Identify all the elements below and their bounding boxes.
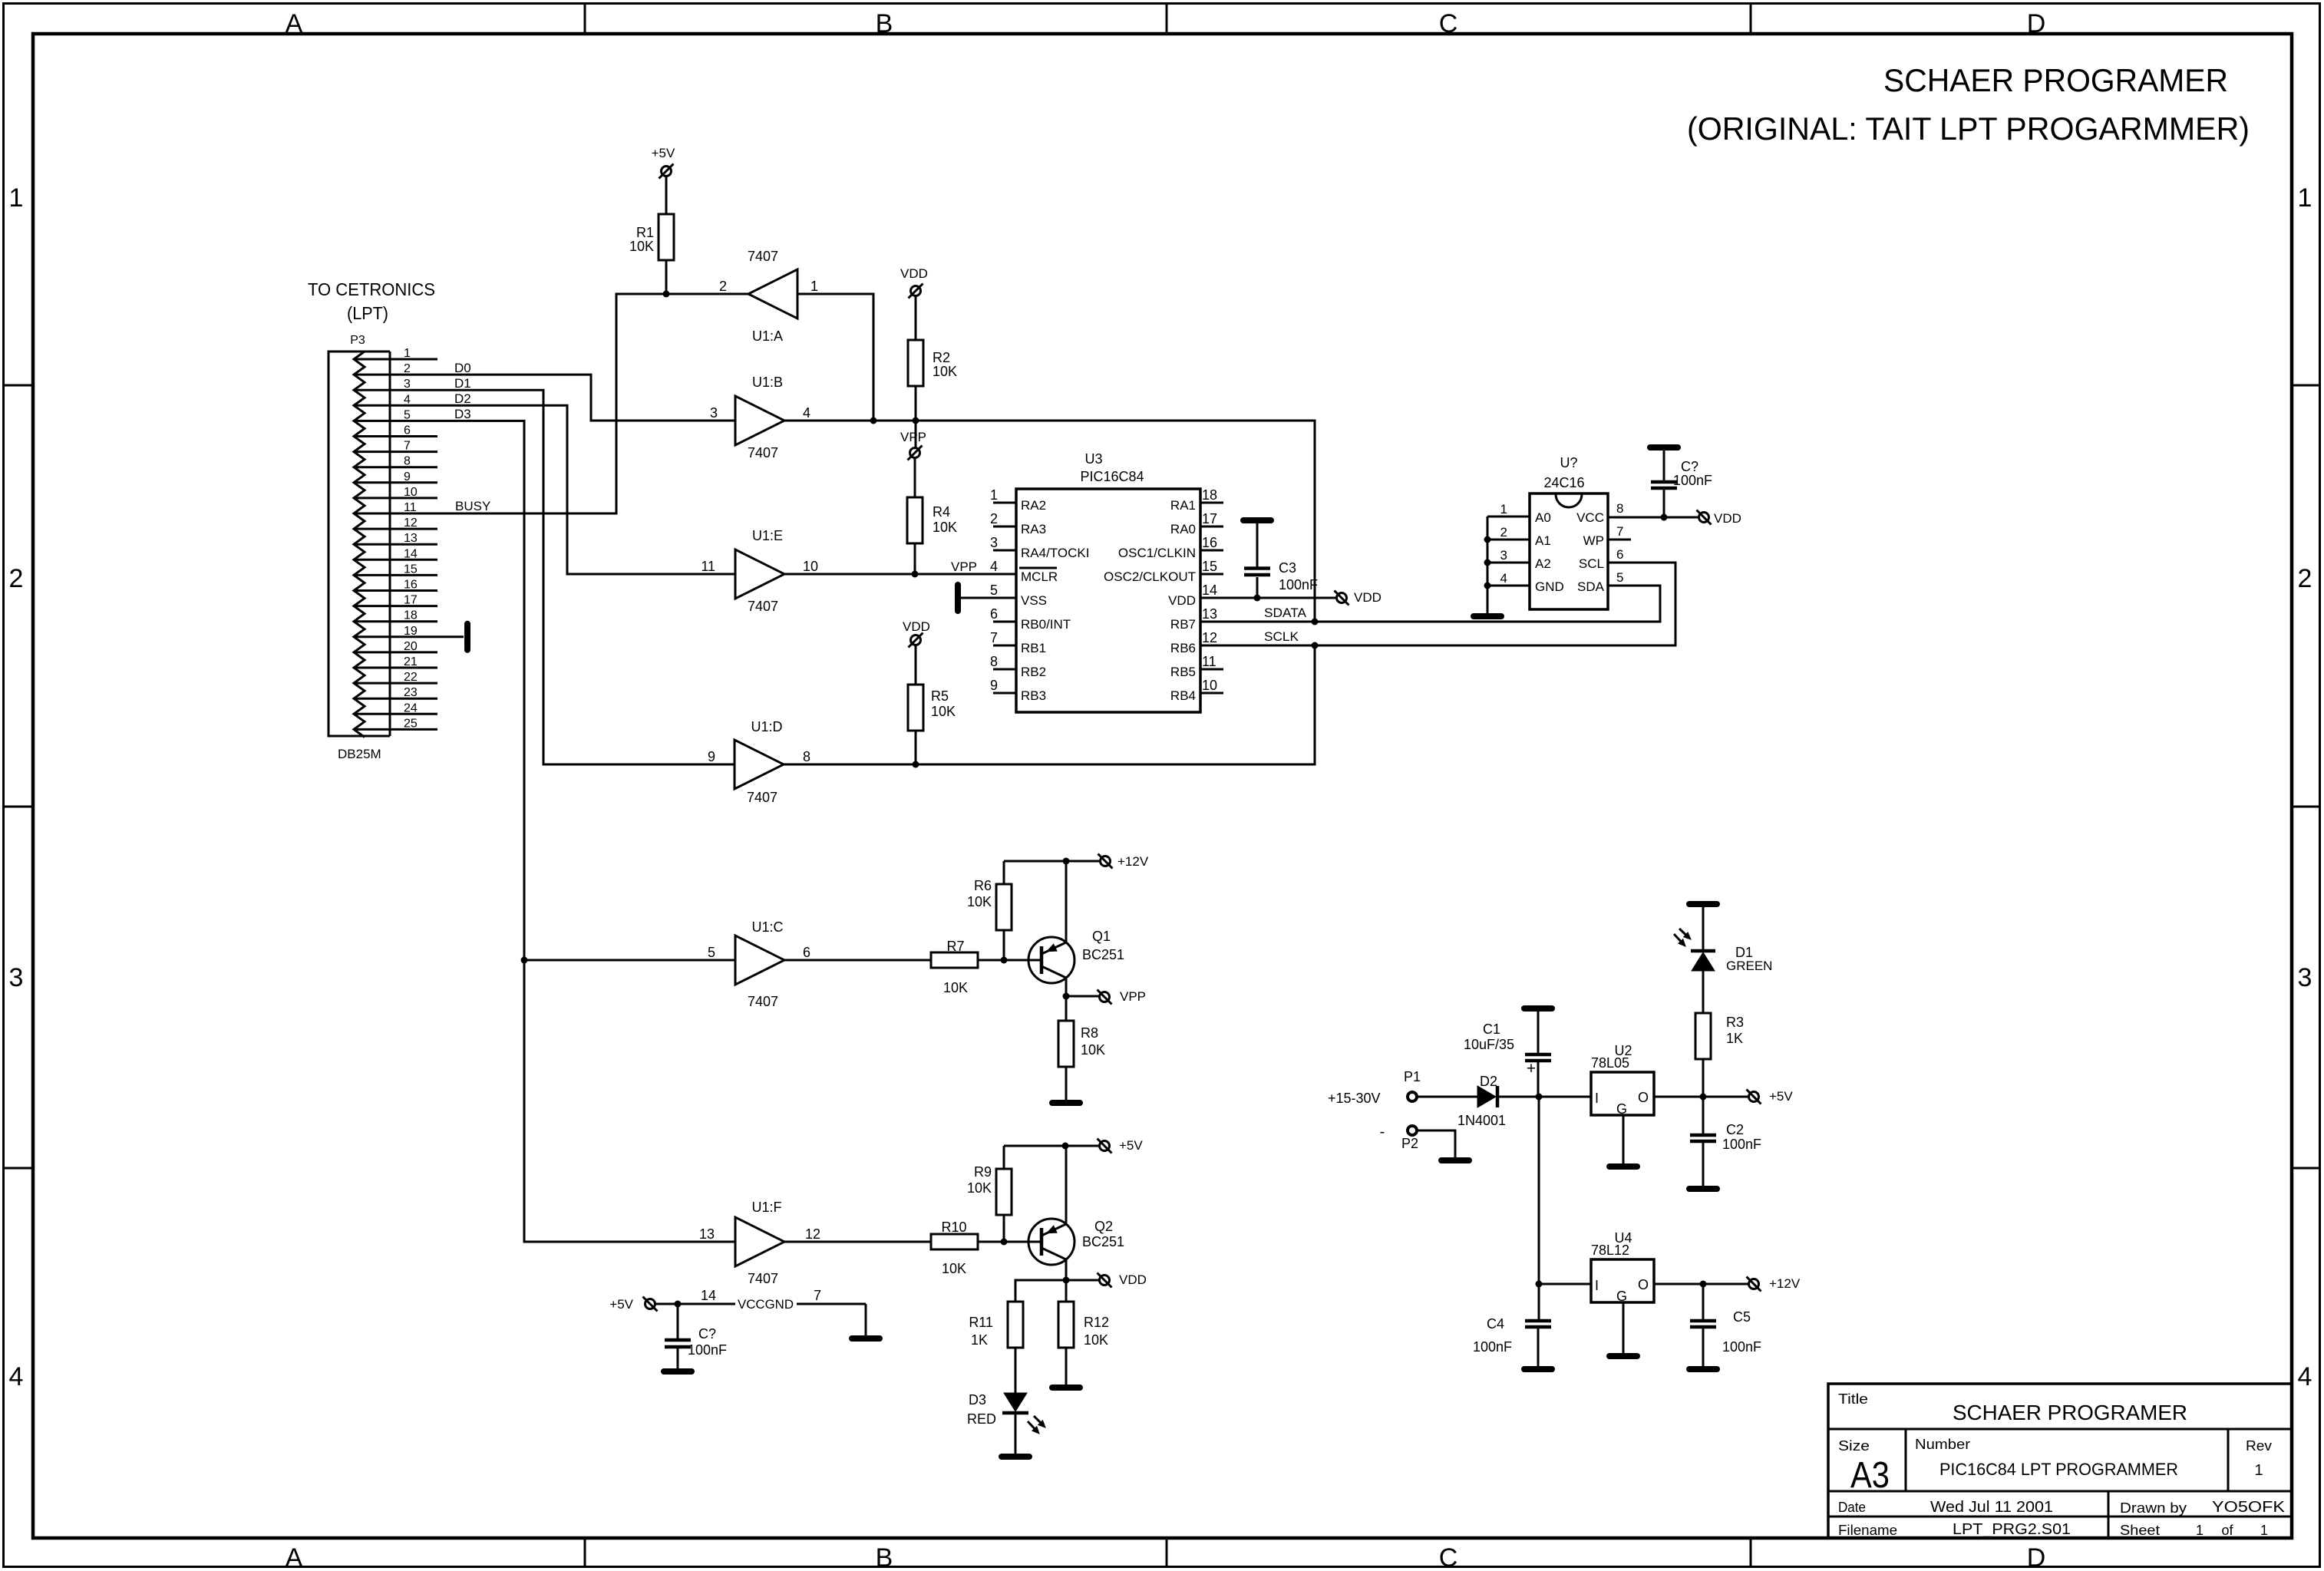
svg-text:U1:B: U1:B: [752, 375, 783, 390]
svg-text:C: C: [1439, 9, 1458, 38]
resistor R9: [967, 1164, 1012, 1215]
svg-text:10uF/35: 10uF/35: [1464, 1037, 1514, 1052]
junction C1 on input rail: [1536, 1094, 1543, 1101]
svg-text:VDD: VDD: [1168, 593, 1196, 608]
svg-text:RB7: RB7: [1170, 617, 1196, 632]
svg-text:8: 8: [803, 749, 810, 764]
svg-text:D2: D2: [1480, 1074, 1497, 1089]
U3 pin 14 VDD: [1168, 583, 1217, 608]
capacitor C3: [1243, 520, 1318, 598]
svg-text:P2: P2: [1401, 1136, 1418, 1151]
svg-text:VDD: VDD: [900, 266, 928, 281]
svg-text:R12: R12: [1084, 1315, 1109, 1330]
wire +5V to VCCGND pin14: [655, 1303, 735, 1305]
power +5V at U2 output: [1749, 1092, 1759, 1102]
svg-text:7407: 7407: [748, 599, 778, 614]
svg-text:3: 3: [710, 405, 718, 421]
wire VPP to R8: [1065, 996, 1068, 1021]
svg-text:RA0: RA0: [1170, 522, 1196, 536]
svg-text:18: 18: [404, 609, 418, 622]
svg-text:2: 2: [990, 511, 998, 526]
svg-text:7: 7: [404, 440, 411, 453]
wire pin7 to ground: [865, 1304, 867, 1335]
svg-text:Date: Date: [1838, 1500, 1866, 1515]
svg-text:D: D: [2027, 1543, 2046, 1571]
svg-text:14: 14: [404, 547, 418, 560]
capacitor C? at U1 supply: [665, 1304, 727, 1368]
junction Q2 emitter on +5V rail: [1062, 1143, 1069, 1150]
svg-text:BC251: BC251: [1082, 1234, 1124, 1249]
svg-text:8: 8: [404, 455, 411, 468]
svg-text:R5: R5: [931, 688, 949, 704]
svg-text:R2: R2: [933, 350, 950, 365]
svg-text:100nF: 100nF: [1673, 473, 1712, 488]
junction C? decoupling: [675, 1301, 682, 1308]
connector P3 pin 9: [354, 470, 437, 484]
svg-text:RA2: RA2: [1021, 498, 1046, 513]
svg-text:RB4: RB4: [1170, 688, 1196, 703]
ground bar at U2: [1609, 1163, 1637, 1170]
svg-text:Rev: Rev: [2246, 1438, 2272, 1454]
svg-text:12: 12: [1202, 630, 1217, 645]
wire VDD to R5: [915, 645, 917, 685]
buffer U1:D 7407: [708, 719, 810, 805]
wire R5 to SCLK net: [915, 731, 917, 764]
svg-text:D: D: [2027, 9, 2046, 38]
power VDD at 24C16 VCC: [1699, 513, 1709, 523]
svg-text:19: 19: [404, 625, 418, 638]
U3 pin 8 RB2: [990, 654, 1046, 679]
svg-text:VDD: VDD: [1714, 511, 1741, 526]
svg-text:RB1: RB1: [1021, 641, 1046, 655]
svg-text:VDD: VDD: [903, 619, 930, 634]
wire VDD stub at Q2: [1066, 1279, 1099, 1282]
svg-text:5: 5: [404, 408, 411, 421]
U3 pin 17 RA0: [1170, 511, 1223, 536]
wire R7 to Q1 base: [978, 959, 1042, 962]
wire VPP stub at Q1: [1066, 995, 1100, 998]
svg-text:10K: 10K: [1081, 1042, 1105, 1058]
svg-text:7: 7: [814, 1288, 821, 1303]
svg-text:C4: C4: [1487, 1316, 1504, 1332]
svg-text:Sheet: Sheet: [2120, 1523, 2160, 1538]
svg-text:MCLR: MCLR: [1021, 569, 1058, 584]
svg-text:SCL: SCL: [1579, 556, 1604, 571]
wire R2 to net: [915, 386, 917, 421]
connector P3 pin 10: [354, 486, 437, 499]
U? pin 1 A0: [1487, 502, 1551, 525]
svg-text:1K: 1K: [971, 1332, 988, 1348]
wire U1:A input from SDATA net: [797, 294, 873, 421]
IC U3 PIC16C84: [1016, 451, 1200, 712]
svg-text:VSS: VSS: [1021, 593, 1047, 608]
terminal P2: [1380, 1124, 1418, 1151]
connector P3 pin 8: [354, 455, 437, 468]
U3 pin 13 RB7: [1170, 606, 1217, 632]
svg-text:5: 5: [990, 583, 998, 598]
svg-text:VPP: VPP: [1120, 989, 1146, 1004]
svg-text:4: 4: [404, 393, 411, 406]
svg-text:13: 13: [699, 1226, 715, 1242]
svg-text:10K: 10K: [933, 364, 957, 379]
U? pin 6 SCL: [1579, 547, 1624, 571]
connector P3 pin 19: [354, 625, 464, 638]
svg-text:3: 3: [1500, 548, 1507, 563]
svg-text:10K: 10K: [967, 894, 992, 909]
U3 pin 6 RB0/INT: [990, 606, 1071, 632]
resistor R7: [931, 939, 978, 995]
U3 pin 12 RB6: [1170, 630, 1217, 655]
svg-text:R4: R4: [933, 504, 950, 520]
svg-text:RB2: RB2: [1021, 665, 1046, 679]
ground bar at R12: [1052, 1385, 1080, 1391]
border column ticks top: [584, 3, 586, 34]
svg-text:YO5OFK: YO5OFK: [2212, 1499, 2286, 1516]
wire Q2 collector to VDD: [1065, 1259, 1068, 1280]
svg-text:10: 10: [1202, 678, 1217, 693]
junction R9/Q2 base: [1001, 1239, 1008, 1246]
svg-text:15: 15: [404, 563, 418, 576]
svg-text:4: 4: [2298, 1362, 2312, 1391]
power VPP at Q1: [1100, 992, 1110, 1002]
svg-text:6: 6: [1616, 547, 1623, 562]
svg-text:U3: U3: [1084, 451, 1102, 467]
ground bar 24C16 GND: [1474, 613, 1501, 619]
wire R10 to Q2 base: [978, 1241, 1042, 1243]
svg-text:9: 9: [404, 470, 411, 484]
svg-text:1: 1: [2298, 183, 2312, 213]
svg-text:23: 23: [404, 686, 418, 699]
svg-text:OSC1/CLKIN: OSC1/CLKIN: [1118, 546, 1196, 560]
svg-text:+5V: +5V: [652, 146, 675, 160]
U? pin 8 VCC: [1576, 501, 1623, 525]
diode D2 1N4001: [1457, 1074, 1506, 1128]
wire R3 to +5V rail: [1702, 1059, 1705, 1097]
svg-text:2: 2: [719, 279, 727, 294]
svg-text:2: 2: [9, 564, 24, 593]
svg-text:RA4/TOCKI: RA4/TOCKI: [1021, 546, 1089, 560]
connector P3 pin 17: [354, 594, 437, 607]
svg-text:8: 8: [1616, 501, 1623, 516]
svg-text:+5V: +5V: [1769, 1089, 1793, 1104]
power +5V at U1 supply: [645, 1299, 655, 1309]
junction C2/R3 on +5V: [1700, 1094, 1707, 1101]
svg-text:RB0/INT: RB0/INT: [1021, 617, 1071, 632]
capacitor C? at 24C16: [1650, 447, 1712, 517]
junction R5/U1:D output: [913, 761, 919, 768]
svg-text:U1:E: U1:E: [752, 528, 783, 543]
wire rail to C4: [1538, 1284, 1540, 1319]
junction U1:A input on U1:B output: [870, 418, 877, 424]
sheet title: [1687, 62, 2250, 147]
svg-text:C2: C2: [1726, 1122, 1744, 1137]
svg-text:GND: GND: [1535, 579, 1564, 594]
svg-text:U1:C: U1:C: [751, 919, 783, 935]
wire VPP symbol to R4: [914, 458, 916, 497]
svg-text:C?: C?: [1681, 459, 1698, 474]
wire net SDATA (U3 RB7 to 24C16 SDA): [1200, 586, 1660, 622]
title block Size field: [1838, 1438, 1890, 1496]
wire U2 output +5V rail: [1655, 1096, 1749, 1098]
svg-text:A: A: [286, 9, 303, 38]
svg-text:(ORIGINAL: TAIT LPT PROGARMMER: (ORIGINAL: TAIT LPT PROGARMMER): [1687, 111, 2250, 147]
connector P3 pin 3: [354, 378, 411, 391]
svg-text:VCC: VCC: [1576, 510, 1604, 525]
connector P3 DB25M: [308, 279, 435, 738]
svg-text:5: 5: [1616, 570, 1623, 585]
terminal P1: [1404, 1069, 1421, 1101]
svg-text:100nF: 100nF: [688, 1342, 727, 1358]
connector P3 pin 6: [354, 424, 437, 437]
svg-text:U1:D: U1:D: [751, 719, 782, 734]
wire U1:F output to R10: [784, 1241, 931, 1243]
wire junction to VPP symbol: [915, 421, 917, 447]
wire rail to R6: [1003, 861, 1005, 884]
power VPP below U1:B output: [910, 448, 920, 458]
wire 24C16 VCC to VDD: [1608, 517, 1698, 519]
svg-text:100nF: 100nF: [1473, 1339, 1512, 1355]
svg-text:A2: A2: [1535, 556, 1551, 571]
transistor Q1 BC251: [1028, 929, 1124, 983]
wire net D3 (P3 pin5 to U1:C and U1:F inputs): [390, 421, 735, 1242]
resistor R10: [931, 1220, 978, 1276]
ground bar at R8: [1052, 1100, 1080, 1106]
svg-text:1: 1: [990, 487, 998, 503]
U3 pin 9 RB3: [990, 678, 1046, 703]
svg-text:C5: C5: [1733, 1309, 1751, 1325]
U? pin 7 WP: [1583, 524, 1631, 548]
title block Number field: [1915, 1437, 2178, 1479]
buffer U1:A 7407: [719, 249, 818, 344]
svg-text:I: I: [1595, 1091, 1599, 1106]
svg-text:4: 4: [990, 559, 998, 574]
U3 pin 15 OSC2/CLKOUT: [1104, 559, 1223, 584]
svg-text:BC251: BC251: [1082, 947, 1124, 962]
svg-text:VPP: VPP: [900, 430, 926, 444]
svg-text:DB25M: DB25M: [338, 747, 381, 761]
svg-text:Size: Size: [1838, 1438, 1870, 1454]
wire input rail to U4: [1539, 1097, 1591, 1284]
svg-text:VDD: VDD: [1354, 590, 1382, 605]
svg-text:Filename: Filename: [1838, 1523, 1897, 1538]
ground bar at D1: [1689, 901, 1717, 907]
buffer U1:B 7407: [710, 375, 810, 460]
wire VDD to R2: [915, 296, 917, 340]
svg-text:11: 11: [1202, 654, 1216, 669]
title block Filename row: [1838, 1521, 2268, 1538]
regulator U2 78L05: [1591, 1043, 1654, 1117]
power +12V at U4 output: [1749, 1279, 1759, 1289]
svg-text:+: +: [1527, 1060, 1536, 1078]
svg-text:PIC16C84 LPT PROGRAMMER: PIC16C84 LPT PROGRAMMER: [1939, 1460, 2178, 1479]
svg-text:+12V: +12V: [1117, 854, 1149, 869]
U3 pin 10 RB4: [1170, 678, 1223, 703]
border column ticks bottom: [584, 1538, 586, 1568]
wire Q1 collector to VPP: [1065, 978, 1068, 996]
wire VSS: [961, 597, 1016, 599]
wire U1:B output to SDATA vertical: [784, 421, 1315, 622]
resistor R5: [908, 685, 956, 731]
svg-text:7: 7: [990, 630, 998, 645]
svg-text:OSC2/CLKOUT: OSC2/CLKOUT: [1104, 569, 1196, 584]
junction C? on VCC: [1661, 514, 1668, 521]
title block Title row: [1838, 1391, 2187, 1424]
wire +12V rail at Q1: [1004, 860, 1100, 863]
svg-text:RA1: RA1: [1170, 498, 1196, 513]
svg-text:2: 2: [1500, 525, 1507, 540]
power +5V at Q2: [1100, 1141, 1110, 1151]
svg-text:U?: U?: [1560, 455, 1577, 470]
svg-text:I: I: [1595, 1278, 1599, 1293]
svg-text:2: 2: [2298, 564, 2312, 593]
U? pin 5 SDA: [1577, 570, 1623, 594]
svg-text:78L12: 78L12: [1591, 1243, 1629, 1258]
junction SDATA: [1312, 619, 1319, 625]
svg-text:10: 10: [404, 486, 418, 499]
resistor R11: [969, 1302, 1023, 1348]
svg-text:10K: 10K: [967, 1180, 992, 1196]
connector P3 pin 20: [354, 640, 437, 653]
power VDD at R2: [911, 286, 921, 296]
wire D1 to R3: [1702, 971, 1705, 1013]
svg-text:A0: A0: [1535, 510, 1551, 525]
U? pin 4 GND: [1487, 571, 1564, 594]
svg-text:17: 17: [1202, 511, 1217, 526]
svg-text:RED: RED: [967, 1411, 996, 1427]
ground bar at D3: [1002, 1454, 1029, 1460]
svg-text:13: 13: [1202, 606, 1217, 622]
connector P3 pin 16: [354, 579, 437, 592]
junction C3 on VDD: [1254, 595, 1261, 602]
IC U? 24C16: [1530, 455, 1608, 609]
svg-text:R7: R7: [946, 939, 964, 954]
svg-text:7407: 7407: [747, 790, 777, 805]
svg-text:C3: C3: [1279, 560, 1296, 576]
svg-text:14: 14: [1202, 583, 1217, 598]
svg-text:Q2: Q2: [1094, 1219, 1113, 1234]
svg-text:10: 10: [803, 559, 818, 574]
wire net D1 (P3 pin3 to U1:D input): [390, 390, 735, 764]
svg-text:25: 25: [404, 717, 418, 730]
svg-text:21: 21: [404, 655, 418, 668]
U3 pin 16 OSC1/CLKIN: [1118, 535, 1223, 560]
wire R4 to MCLR net: [914, 543, 916, 574]
connector P3 pin 13: [354, 532, 437, 545]
svg-text:3: 3: [404, 378, 411, 391]
resistor R1: [629, 214, 674, 260]
svg-text:WP: WP: [1583, 533, 1604, 548]
svg-text:U1:A: U1:A: [752, 328, 783, 344]
wire Q1 emitter to +12V: [1065, 861, 1068, 942]
svg-text:10K: 10K: [931, 704, 956, 719]
resistor R8: [1058, 1021, 1105, 1067]
connector P3 pin 12: [354, 517, 437, 530]
connector P3 pin 11: [354, 501, 417, 514]
svg-text:1: 1: [2196, 1523, 2204, 1538]
svg-text:16: 16: [404, 579, 418, 592]
wire U1:E output to PIC MCLR: [784, 573, 1016, 576]
svg-text:Q1: Q1: [1092, 929, 1111, 944]
junction D3/U1:C: [521, 957, 528, 964]
svg-text:P1: P1: [1404, 1069, 1421, 1084]
junction Q2 collector/VDD: [1063, 1277, 1070, 1284]
connector P3 pin 22: [354, 671, 437, 684]
connector P3 pin 23: [354, 686, 437, 699]
svg-text:Drawn by: Drawn by: [2120, 1500, 2187, 1516]
svg-text:3: 3: [9, 963, 24, 992]
connector P3 pin 14: [354, 547, 437, 560]
ground bar at C5: [1689, 1366, 1717, 1372]
svg-text:D3: D3: [969, 1392, 986, 1408]
svg-text:9: 9: [990, 678, 998, 693]
svg-text:R3: R3: [1726, 1015, 1744, 1030]
ground bar at P2: [1441, 1157, 1469, 1163]
power VDD at Q2: [1100, 1276, 1110, 1286]
svg-text:D2: D2: [454, 391, 471, 406]
svg-text:10K: 10K: [629, 239, 654, 254]
connector P3 pin 18: [354, 609, 437, 622]
svg-text:U1:F: U1:F: [751, 1200, 781, 1215]
svg-text:O: O: [1638, 1090, 1649, 1105]
svg-text:C: C: [1439, 1543, 1458, 1571]
wire P2 to ground: [1417, 1130, 1455, 1157]
svg-text:2: 2: [404, 362, 411, 375]
svg-text:20: 20: [404, 640, 418, 653]
title block: [1828, 1384, 2292, 1538]
svg-text:24C16: 24C16: [1543, 475, 1584, 490]
connector P3 pin 21: [354, 655, 437, 668]
svg-text:5: 5: [708, 945, 715, 960]
buffer U1:F 7407: [699, 1200, 820, 1286]
resistor R2: [908, 340, 957, 386]
svg-text:1K: 1K: [1726, 1031, 1743, 1046]
svg-text:10K: 10K: [1084, 1332, 1108, 1348]
svg-text:4: 4: [1500, 571, 1507, 586]
svg-text:100nF: 100nF: [1279, 577, 1318, 592]
svg-text:6: 6: [990, 606, 998, 622]
U3 pin 4 MCLR: [990, 559, 1058, 584]
wire R1 to BUSY net: [665, 260, 668, 294]
junction at U4 input: [1536, 1281, 1543, 1288]
svg-text:+5V: +5V: [1119, 1138, 1143, 1153]
wire net BUSY (P3 pin11 to U1:A output): [390, 294, 748, 513]
svg-text:3: 3: [990, 535, 998, 550]
svg-text:1: 1: [2254, 1462, 2263, 1479]
power VDD at U3 pin14: [1337, 593, 1347, 603]
wire D3 branch to U1:C: [524, 959, 735, 962]
svg-text:R9: R9: [974, 1164, 992, 1180]
junction Q1 collector/VPP: [1063, 993, 1070, 1000]
svg-text:R1: R1: [636, 225, 654, 240]
svg-text:100nF: 100nF: [1722, 1137, 1761, 1152]
svg-text:+15-30V: +15-30V: [1328, 1091, 1381, 1106]
ground bar at C?: [664, 1368, 692, 1375]
wire R8 to ground: [1065, 1067, 1068, 1101]
wire net SCLK (U3 RB6 to 24C16 SCL): [1200, 563, 1675, 645]
connector P3 pin 2: [354, 362, 411, 375]
U3 pin 3 RA4/TOCKI: [990, 535, 1089, 560]
svg-text:10K: 10K: [933, 520, 957, 535]
svg-text:PIC16C84: PIC16C84: [1080, 469, 1144, 484]
svg-text:VCCGND: VCCGND: [738, 1297, 794, 1312]
svg-text:SDATA: SDATA: [1264, 606, 1307, 620]
resistor R4: [907, 497, 957, 543]
svg-text:BUSY: BUSY: [455, 499, 490, 513]
wire D2 to U2 input: [1499, 1096, 1591, 1098]
svg-text:SCHAER PROGRAMER: SCHAER PROGRAMER: [1953, 1401, 2187, 1424]
junction Q1 collector on +12V rail: [1063, 858, 1070, 865]
junction C5 on +12V: [1700, 1281, 1707, 1288]
